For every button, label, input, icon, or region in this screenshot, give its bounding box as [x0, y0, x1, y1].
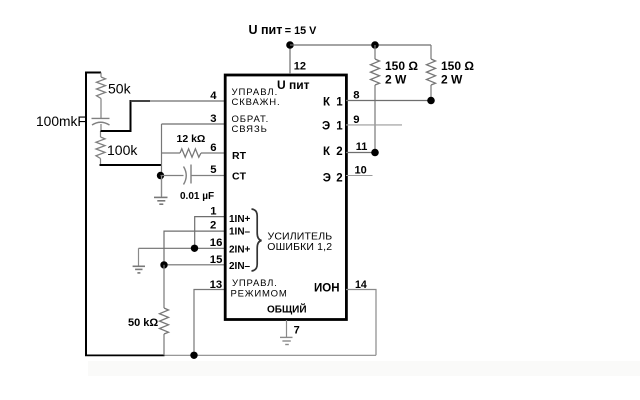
svg-text:12: 12 [294, 60, 306, 72]
svg-text:13: 13 [210, 279, 223, 291]
svg-text:2IN–: 2IN– [229, 261, 251, 272]
node supply [286, 41, 294, 49]
wire pin2 [164, 231, 227, 265]
wire pin1 [195, 217, 227, 249]
svg-text:ИОН: ИОН [314, 283, 340, 295]
svg-text:6: 6 [210, 142, 216, 154]
svg-text:1: 1 [210, 206, 216, 218]
ground at pin7 [280, 337, 293, 344]
svg-text:7: 7 [294, 325, 300, 337]
svg-text:0.01 µF: 0.01 µF [180, 191, 214, 202]
ground below RT node [154, 176, 168, 205]
wire pin4 horizontal [131, 100, 228, 102]
resistor R 150 Ohm first [371, 45, 419, 153]
wire bottom grey run [165, 354, 377, 356]
svg-text:16: 16 [210, 237, 223, 249]
wire top rail [290, 44, 431, 46]
wire node cap-100k to pin4 step [101, 101, 151, 131]
svg-text:8: 8 [353, 89, 359, 101]
svg-text:15: 15 [210, 254, 223, 266]
svg-text:1IN–: 1IN– [229, 227, 251, 238]
svg-text:50 kΩ: 50 kΩ [128, 317, 158, 329]
svg-text:3: 3 [210, 113, 216, 125]
svg-text:2: 2 [210, 219, 216, 231]
wire bottom-left horizontal [85, 354, 165, 356]
resistor R 50k [97, 73, 132, 119]
resistor R 100k [96, 131, 138, 165]
svg-text:14: 14 [355, 279, 367, 291]
capacitor C 0.01uF [161, 165, 228, 203]
capacitor C 100mkF [36, 114, 110, 131]
wire pin7 stub [286, 320, 288, 337]
svg-text:СКВАЖН.: СКВАЖН. [232, 97, 281, 108]
svg-text:СВЯЗЬ: СВЯЗЬ [232, 124, 268, 135]
svg-text:11: 11 [356, 141, 368, 153]
resistor R 12k [162, 133, 228, 157]
svg-text:100k: 100k [107, 142, 138, 158]
wire pin15 [164, 264, 227, 266]
svg-text:5: 5 [210, 164, 216, 176]
wire pin14 [346, 290, 376, 356]
brace error amp group [252, 209, 262, 271]
svg-text:4: 4 [210, 90, 217, 102]
wire pin13 [194, 290, 227, 356]
wire left feedback vertical [85, 73, 87, 356]
IC U1 body [225, 75, 346, 320]
svg-text:150 Ω: 150 Ω [385, 59, 418, 73]
wire below 100k to RT vertical [100, 164, 162, 166]
wire pin11 [346, 152, 375, 154]
wire pin16 [139, 247, 228, 249]
node junction pin1-pin16 [191, 245, 198, 252]
svg-text:100mkF: 100mkF [36, 114, 86, 129]
node pin11-R1 [371, 149, 379, 157]
svg-text:2 W: 2 W [441, 73, 463, 87]
svg-text:U пит: U пит [277, 78, 310, 92]
svg-text:ОБЩИЙ: ОБЩИЙ [267, 303, 307, 316]
node junction pin2-pin15 [160, 261, 167, 268]
svg-text:РЕЖИМОМ: РЕЖИМОМ [231, 288, 288, 299]
svg-text:RT: RT [232, 150, 247, 162]
node junction pin13-bottom [190, 352, 197, 359]
node junction pin5 [157, 172, 164, 179]
svg-text:CT: CT [232, 171, 247, 183]
wire top-left horizontal [85, 72, 101, 74]
node pin8-R2 [427, 97, 435, 105]
wire pin8 [346, 100, 431, 102]
svg-text:150 Ω: 150 Ω [441, 59, 474, 73]
svg-text:50k: 50k [108, 80, 132, 96]
svg-text:1IN+: 1IN+ [229, 214, 251, 225]
wire pin10 stub [346, 175, 373, 177]
wire pin12 supply drop [289, 45, 291, 74]
svg-text:ОШИБКИ 1,2: ОШИБКИ 1,2 [267, 241, 332, 253]
node rail R1 [371, 41, 379, 49]
svg-text:2IN+: 2IN+ [229, 245, 251, 256]
wire RT vertical [161, 124, 163, 196]
svg-text:9: 9 [353, 114, 359, 126]
svg-text:2 W: 2 W [385, 73, 407, 87]
resistor R 50kOhm [128, 265, 169, 356]
wire pin3 horizontal [162, 123, 228, 125]
svg-text:12 kΩ: 12 kΩ [177, 133, 206, 145]
resistor R 150 Ohm second [427, 45, 475, 101]
wire pin9 stub [346, 124, 402, 126]
svg-text:10: 10 [355, 164, 367, 176]
ground at pin16 [133, 248, 145, 273]
